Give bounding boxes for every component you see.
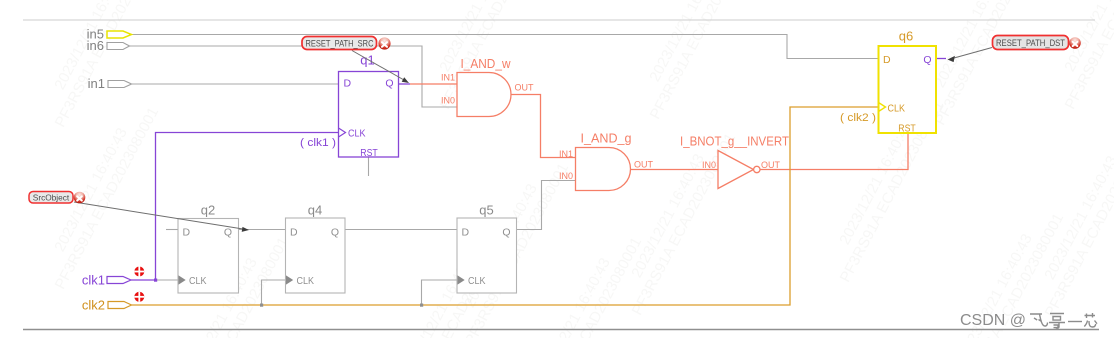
error ball RESET_PATH_DST [1069, 37, 1081, 49]
error marker at clk1 [134, 267, 144, 277]
flag RESET_PATH_DST [993, 36, 1069, 50]
svg-text:RST: RST [898, 123, 916, 135]
junction clk2/q4 [260, 304, 263, 307]
svg-text:( clk2 ): ( clk2 ) [840, 112, 876, 124]
flip-flop q5 [457, 218, 517, 293]
wire q1.RST stub [368, 157, 370, 176]
svg-text:IN0: IN0 [441, 96, 455, 106]
svg-text:CLK: CLK [348, 128, 366, 140]
flip-flop q1 [339, 72, 399, 160]
svg-text:Q: Q [923, 54, 931, 66]
svg-text:RST: RST [360, 147, 378, 159]
wire net in5 [132, 35, 879, 59]
wire highlighted net q1.Q to I_AND_w IN1 [410, 83, 457, 85]
wire I_AND_w OUT to I_AND_g IN1 [511, 95, 576, 158]
svg-text:Q: Q [385, 78, 393, 90]
annotation line SrcObject to q2.Q [74, 202, 249, 232]
flip-flop q4 [286, 218, 346, 293]
wire net clk1 (purple) [131, 133, 339, 281]
wire net in1 [132, 83, 339, 85]
svg-text:in1: in1 [88, 76, 105, 91]
port clk2 [82, 298, 132, 313]
svg-text:q1: q1 [360, 53, 374, 68]
wire q1 Q output stub (purple pin) [399, 83, 411, 85]
svg-text:I_AND_w: I_AND_w [461, 56, 512, 71]
svg-text:CLK: CLK [189, 275, 207, 287]
error ball RESET_PATH_SRC [378, 37, 390, 49]
svg-text:Q: Q [224, 227, 232, 239]
svg-text:CSDN @: CSDN @ [960, 312, 1026, 329]
svg-text:D: D [344, 78, 352, 90]
flag SrcObject [29, 192, 73, 204]
svg-text:Q: Q [502, 227, 510, 239]
svg-text:D: D [290, 227, 298, 239]
svg-text:clk1: clk1 [82, 273, 105, 288]
svg-text:OUT: OUT [515, 83, 535, 93]
svg-text:I_AND_g: I_AND_g [581, 131, 632, 146]
port in1 [88, 76, 132, 91]
wire q6.Q output stub (purple pin) [936, 58, 946, 60]
junction clk2/q5 [420, 304, 423, 307]
svg-text:q6: q6 [899, 29, 913, 44]
svg-text:RESET_PATH_SRC: RESET_PATH_SRC [306, 39, 374, 49]
svg-text:D: D [883, 54, 891, 66]
svg-text:OUT: OUT [761, 160, 781, 170]
svg-text:I_BNOT_g__INVERT: I_BNOT_g__INVERT [680, 134, 789, 149]
error ball SrcObject [74, 192, 86, 204]
svg-text:clk2: clk2 [82, 298, 105, 313]
annotation line RESET_PATH_DST to q6.Q [948, 48, 993, 63]
port clk1 [82, 273, 131, 288]
svg-text:q5: q5 [479, 203, 493, 218]
wire inverter OUT to q6 RST [760, 133, 908, 170]
svg-text:SrcObject: SrcObject [33, 193, 70, 203]
svg-text:D: D [183, 227, 191, 239]
svg-text:q4: q4 [308, 203, 322, 218]
flip-flop q2 [178, 219, 239, 294]
watermark CSDN credit [960, 312, 1097, 329]
wire net in6 [130, 46, 458, 107]
top rule [23, 19, 1095, 21]
wire clk1 branch to q2 CLK [156, 279, 179, 281]
svg-text:IN1: IN1 [559, 149, 573, 159]
svg-text:in6: in6 [87, 38, 104, 53]
port in5 [87, 27, 132, 42]
wire net clk2 (orange) [132, 107, 879, 305]
wire q4.Q to q5.D [345, 229, 457, 231]
error marker at clk2 [134, 292, 144, 302]
svg-text:IN0: IN0 [559, 171, 573, 181]
svg-text:CLK: CLK [468, 275, 486, 287]
annotation line RESET_PATH_SRC to q1.Q [352, 51, 409, 84]
AND gate I_AND_w [457, 73, 511, 117]
wire q2.Q to q4.D [239, 229, 286, 231]
svg-text:OUT: OUT [634, 160, 654, 170]
junction clk1/q2 [154, 279, 157, 282]
svg-text:( clk1 ): ( clk1 ) [300, 137, 336, 149]
svg-text:Q: Q [331, 227, 339, 239]
inverter I_BNOT_g__INVERT [718, 151, 760, 189]
wire q5.Q to I_AND_g IN0 [517, 181, 576, 230]
wire q2.D stub [166, 229, 178, 231]
svg-text:RESET_PATH_DST: RESET_PATH_DST [996, 38, 1065, 48]
svg-text:CLK: CLK [297, 275, 315, 287]
wire clk2 branch to q4 CLK [262, 280, 286, 305]
bottom rule [23, 329, 1099, 331]
port in6 [87, 38, 130, 53]
svg-text:IN0: IN0 [702, 160, 716, 170]
wire clk2 branch to q5 CLK [422, 280, 458, 305]
flip-flop q6 [879, 46, 937, 135]
svg-text:CLK: CLK [888, 103, 906, 115]
flag RESET_PATH_SRC [302, 37, 377, 50]
svg-text:D: D [462, 227, 470, 239]
svg-text:q2: q2 [201, 203, 215, 218]
svg-text:IN1: IN1 [441, 73, 455, 83]
wire I_AND_g OUT to inverter IN0 [631, 169, 719, 171]
AND gate I_AND_g [576, 148, 631, 191]
